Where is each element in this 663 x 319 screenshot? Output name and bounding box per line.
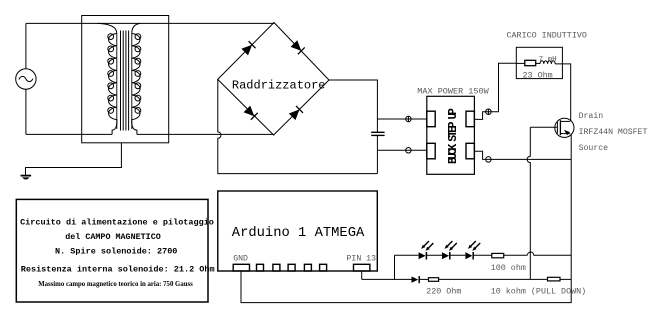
transformer primary winding bbox=[97, 23, 117, 134]
svg-text:Drain: Drain bbox=[579, 111, 604, 121]
wire buck plus output bbox=[474, 63, 516, 119]
wire capacitor bottom to minus rail bbox=[376, 135, 378, 173]
transformer secondary winding bbox=[132, 23, 141, 134]
pin small 4 bbox=[304, 264, 311, 271]
wire buck plus input bbox=[377, 118, 426, 120]
svg-text:Massimo campo magnetico teoric: Massimo campo magnetico teorico in aria:… bbox=[38, 281, 193, 288]
terminal plus input bbox=[406, 116, 412, 122]
wire source rail bbox=[241, 134, 571, 303]
pin GND bbox=[233, 264, 249, 271]
diode bridge bottom-right bbox=[289, 106, 303, 120]
wire gate bbox=[530, 126, 557, 128]
svg-text:10 kohm (PULL DOWN): 10 kohm (PULL DOWN) bbox=[491, 287, 587, 297]
svg-text:MAX POWER 150W: MAX POWER 150W bbox=[417, 87, 489, 97]
wire led row (with hop over gate line) bbox=[395, 252, 572, 255]
resistor load 23 Ohm bbox=[525, 60, 536, 65]
pin small 3 bbox=[288, 264, 295, 271]
wire minus rail to bridge left vertex (with hop) bbox=[218, 79, 378, 173]
wire AC source top leg bbox=[25, 23, 27, 68]
wire resistor to inductor bbox=[536, 62, 540, 64]
pin small 5 bbox=[320, 264, 327, 271]
ground bbox=[21, 175, 32, 177]
bridge rectifier diamond bbox=[218, 23, 329, 136]
diode D5 bbox=[412, 277, 419, 283]
diode bridge top-right bbox=[290, 40, 304, 54]
wire top rail AC to bridge top bbox=[26, 22, 274, 24]
wire led branch riser bbox=[394, 255, 396, 279]
pin small 2 bbox=[273, 264, 280, 271]
svg-text:7 mH: 7 mH bbox=[539, 56, 557, 64]
pin buck out+ bbox=[466, 111, 474, 127]
pin PIN 13 bbox=[354, 264, 370, 271]
svg-text:Arduino 1 ATMEGA: Arduino 1 ATMEGA bbox=[232, 225, 365, 241]
pin small 1 bbox=[257, 264, 264, 271]
wire bottom rail right piece to bridge bottom vertex bbox=[137, 133, 274, 135]
terminal minus input bbox=[406, 148, 412, 154]
svg-text:220 Ohm: 220 Ohm bbox=[426, 287, 461, 297]
diode bridge top-left bbox=[241, 41, 255, 55]
svg-text:BUCK STEP UP: BUCK STEP UP bbox=[447, 108, 460, 164]
LED D2 bbox=[442, 241, 457, 260]
pin buck in+ bbox=[427, 111, 435, 127]
wire ground tap from transformer bbox=[26, 143, 122, 175]
svg-text:23 Ohm: 23 Ohm bbox=[523, 70, 553, 80]
svg-text:del CAMPO MAGNETICO: del CAMPO MAGNETICO bbox=[65, 232, 161, 242]
resistor 100 ohm bbox=[492, 253, 504, 257]
wire buck minus input bbox=[377, 149, 426, 151]
transformer winding spines bbox=[117, 34, 132, 129]
pin buck out- bbox=[466, 143, 474, 159]
transformer core bbox=[121, 31, 129, 131]
svg-text:GND: GND bbox=[233, 255, 248, 264]
wire buck minus output bbox=[474, 151, 571, 159]
svg-text:Resistenza interna solenoide:: Resistenza interna solenoide: 21.2 Ohm bbox=[21, 264, 215, 274]
inductor 7mH bbox=[540, 61, 555, 64]
Arduino U1 box bbox=[218, 191, 377, 271]
svg-text:PIN 13: PIN 13 bbox=[347, 255, 377, 264]
svg-text:Raddrizzatore: Raddrizzatore bbox=[232, 79, 326, 93]
converter U2 BUCK box bbox=[427, 96, 475, 174]
svg-text:CARICO INDUTTIVO: CARICO INDUTTIVO bbox=[507, 31, 587, 41]
wire gate vertical (with hop over buck minus wire) bbox=[527, 127, 530, 279]
transistor Q1 IRFZ44N bbox=[555, 118, 574, 137]
capacitor C1 bbox=[371, 131, 384, 133]
diode bridge bottom-left bbox=[243, 105, 257, 119]
resistor 10 kohm bbox=[548, 277, 561, 281]
svg-text:Source: Source bbox=[579, 144, 609, 153]
load box CARICO bbox=[516, 47, 562, 78]
AC source V1 bbox=[16, 69, 36, 89]
wire bridge right vertex to capacitor node bbox=[329, 80, 377, 132]
wire inductor to drain rail bbox=[555, 64, 571, 122]
wire load lead left bbox=[516, 62, 525, 64]
wire pin13 down bbox=[361, 271, 363, 279]
resistor 220 Ohm bbox=[429, 278, 439, 282]
wire bottom rail left piece bbox=[26, 133, 112, 135]
svg-text:Circuito di alimentazione e pi: Circuito di alimentazione e pilotaggio bbox=[20, 217, 214, 227]
info text box bbox=[16, 199, 208, 302]
terminal plus output bbox=[486, 109, 492, 115]
LED D1 bbox=[419, 241, 434, 260]
svg-text:N. Spire solenoide: 2700: N. Spire solenoide: 2700 bbox=[55, 246, 177, 256]
terminal minus output bbox=[486, 157, 492, 163]
svg-text:IRFZ44N MOSFET: IRFZ44N MOSFET bbox=[579, 128, 648, 137]
wire AC source bottom leg bbox=[25, 89, 27, 134]
LED D3 bbox=[465, 241, 480, 260]
wire pin13 row bbox=[362, 278, 572, 280]
pin buck in- bbox=[427, 143, 435, 159]
svg-text:100 ohm: 100 ohm bbox=[491, 263, 526, 273]
transformer T1 box bbox=[82, 16, 169, 143]
